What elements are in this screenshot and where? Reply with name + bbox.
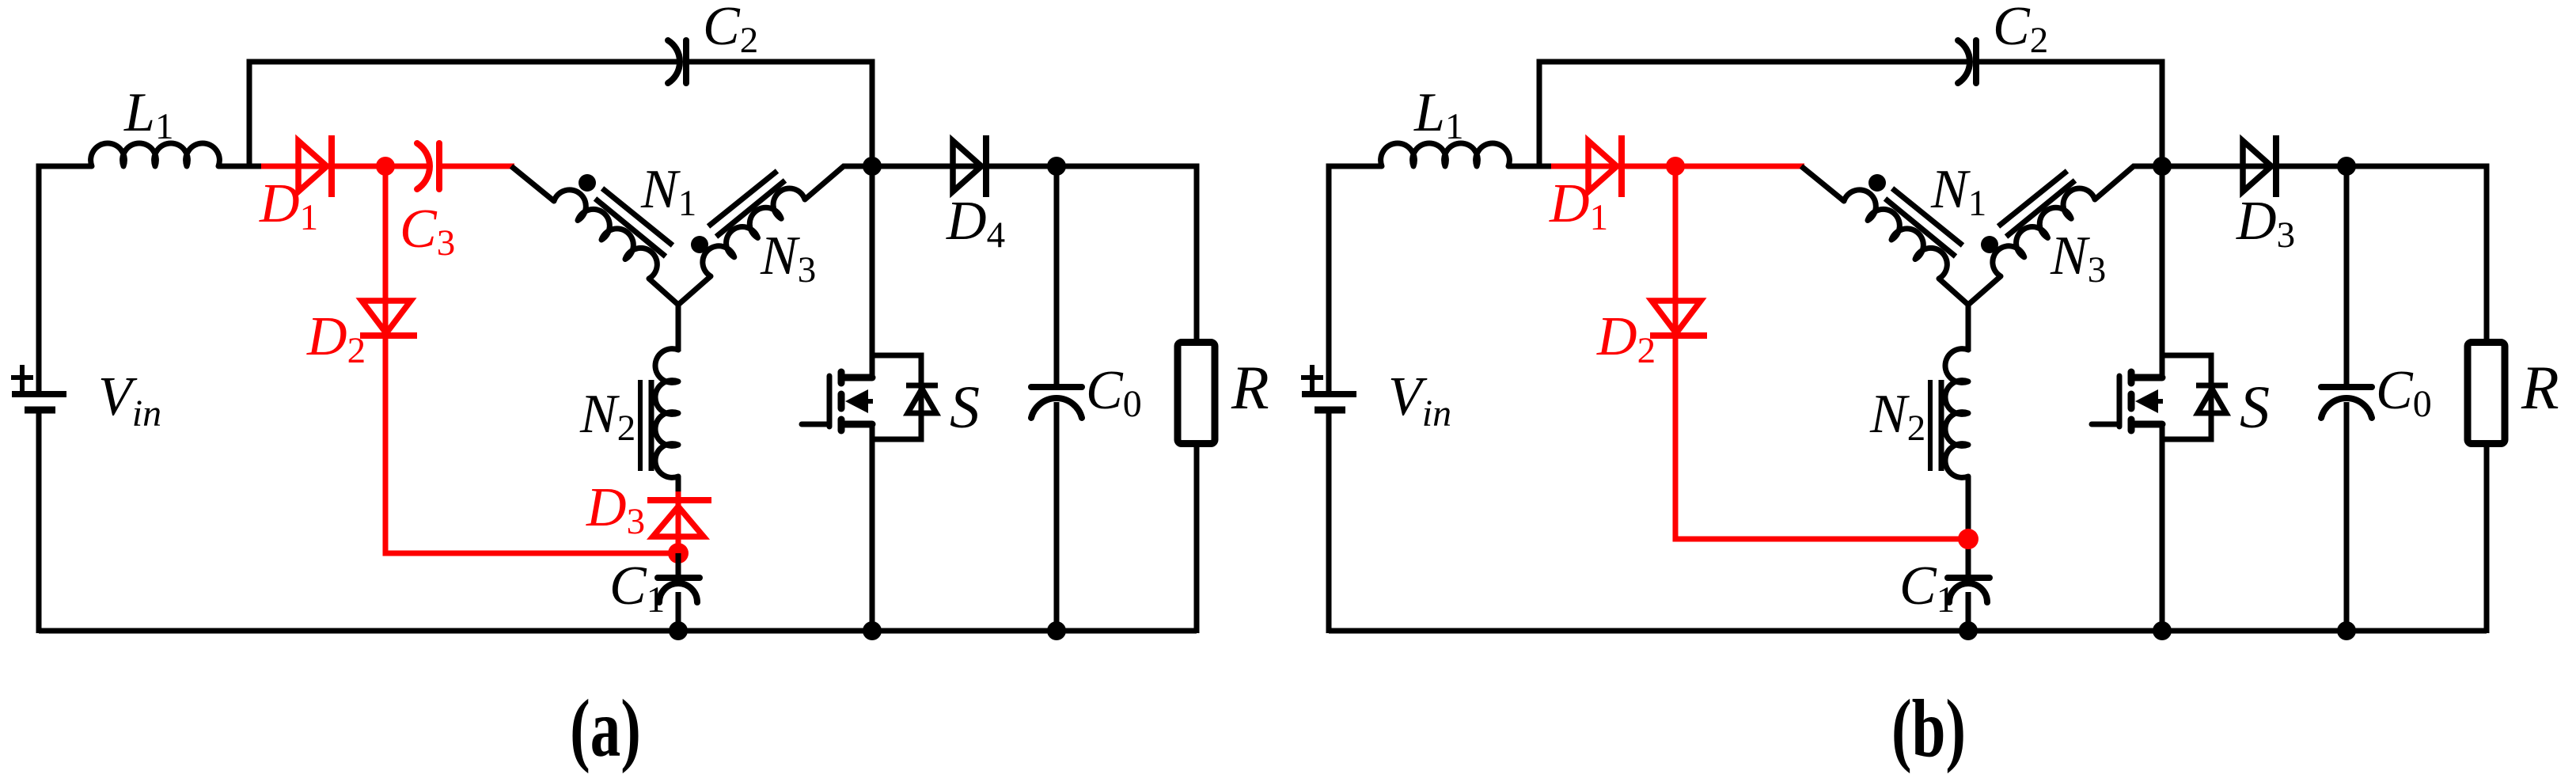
svg-text:S: S [950, 374, 980, 441]
label N1 (a) [640, 159, 696, 224]
wire: D1 to N1 (b) [1622, 164, 1804, 169]
winding N1 phase dot (a) [579, 174, 596, 192]
wire: output node to C0 (a) [1054, 166, 1060, 387]
wire: C1 to bottom bus (a) [676, 592, 681, 633]
capacitor C1 straight plate (a) [658, 575, 700, 581]
bottom bus wire (b) [1329, 628, 2487, 634]
wire: node to D4 (a) [872, 164, 986, 169]
label N1 (b) [1930, 159, 1986, 224]
wire: C2 branch left (a) [249, 62, 678, 166]
capacitor C0 straight plate (a) [1031, 384, 1082, 390]
battery Vin negative plate (b) [1315, 407, 1345, 414]
MOSFET S drain lead (b) [2131, 374, 2162, 381]
wire: node to D2 (b) [1673, 166, 1679, 336]
MOSFET S body-diode loop (b) [2162, 355, 2211, 439]
label D3 (b) [2236, 191, 2295, 256]
winding N2 core bars (a) [640, 380, 651, 471]
label N3 (a) [760, 226, 816, 290]
capacitor C0 straight plate (b) [2321, 384, 2372, 390]
wire: C2 branch left (b) [1539, 62, 1968, 166]
diode D1 cathode bar (a) [328, 135, 335, 197]
label D3 (a) [586, 477, 645, 542]
capacitor C2 straight plate (a) [683, 40, 689, 83]
node dot output (b) [2337, 157, 2356, 176]
diode D4 cathode bar (a) [983, 135, 989, 197]
battery Vin plus sign (a) [11, 365, 33, 391]
wire: C3 to N1 (a) [442, 164, 514, 169]
wire: D1 anode (b) [1551, 164, 1622, 169]
wire: D2 to C1 node red path (a) [385, 336, 678, 553]
wire: MOSFET source to bottom bus (a) [870, 424, 875, 633]
wire: D1 anode (a) [261, 164, 332, 169]
label R (b) [2521, 353, 2559, 422]
capacitor C2 curved plate (b) [1958, 40, 1970, 83]
MOSFET S drain wire (b) [2160, 166, 2165, 378]
wire: L1 to D1 (a) [218, 164, 279, 169]
MOSFET S gate lead (b) [2092, 422, 2119, 427]
MOSFET S drain lead (a) [841, 374, 872, 381]
wire: R to bottom bus (b) [2484, 446, 2490, 633]
node dot D1/D2 junction (b) [1666, 157, 1685, 176]
MOSFET S source lead (a) [841, 421, 872, 428]
label Vin (a) [98, 366, 161, 435]
caption (b) [1891, 682, 1966, 774]
MOSFET S body-diode loop (a) [872, 355, 921, 439]
wire: input rail top-left (b) [1329, 166, 1382, 391]
wire: diagonal to N1 (b) [1801, 166, 1844, 201]
resistor R body (b) [2468, 343, 2505, 444]
label C2 (b) [1993, 0, 2048, 61]
MOSFET S body-diode triangle (b) [2198, 389, 2226, 413]
wire: N3 to node (b) [2095, 166, 2162, 199]
label N3 (b) [2050, 226, 2106, 290]
inductor L1 (a) [91, 143, 220, 166]
winding N1 core bars (b) [1885, 188, 1963, 256]
MOSFET S body-diode triangle (a) [908, 389, 936, 413]
MOSFET S body-diode cathode bar (b) [2196, 383, 2228, 389]
capacitor C0 curved plate (b) [2321, 398, 2372, 418]
wire: through D3 (a) [676, 491, 681, 556]
capacitor C3 curved plate (a) [417, 143, 430, 189]
label C0 (a) [1086, 360, 1142, 425]
caption (a) [570, 682, 641, 774]
wire: D2 to C1 node red path (b) [1675, 336, 1968, 539]
node dot C2/N3/D4/switch junction (a) [863, 157, 882, 176]
node dot C0-bus (b) [2337, 621, 2356, 640]
label D2 (b) [1596, 306, 1656, 371]
wire: R to bottom bus (a) [1194, 446, 1200, 633]
node dot C1-bus (b) [1959, 621, 1978, 640]
label L1 (b) [1413, 82, 1463, 147]
diode D3 cathode bar (a) [647, 497, 711, 503]
winding N3 coil (b) [1993, 188, 2095, 276]
wire: N3 to node (a) [805, 166, 872, 199]
label C2 (a) [703, 0, 758, 61]
label D4 (a) [946, 191, 1005, 256]
wire: D1 to node (a) [332, 164, 389, 169]
battery Vin positive plate (a) [12, 391, 66, 397]
MOSFET S body-diode cathode bar (a) [906, 383, 938, 389]
diode D3 cathode bar (b) [2273, 135, 2279, 197]
MOSFET S channel dashes (b) [2128, 372, 2135, 431]
bottom bus wire (a) [39, 628, 1197, 634]
wire: output node to C0 (b) [2344, 166, 2350, 387]
label S (a) [950, 374, 980, 441]
diode D2 triangle (b) [1652, 301, 1701, 333]
label S (b) [2240, 374, 2270, 441]
node dot output (a) [1047, 157, 1066, 176]
winding N3 phase dot (b) [1981, 236, 1998, 253]
diode D1 triangle (b) [1588, 141, 1617, 192]
wire: output node to R (b) [2346, 166, 2487, 340]
wire: C0 to bottom bus (a) [1054, 402, 1060, 633]
battery Vin positive plate (b) [1302, 391, 1356, 397]
diode D4 triangle (a) [953, 141, 981, 192]
wire: C2 to top-right corner (b) [1979, 62, 2162, 169]
label C0 (b) [2376, 360, 2432, 425]
capacitor C1 straight plate (b) [1948, 575, 1990, 581]
label N2 (a) [579, 384, 635, 449]
wire: L1 to D1 (b) [1508, 164, 1569, 169]
winding N2 core bars (b) [1930, 380, 1941, 471]
wire: battery to bottom bus (b) [1326, 412, 1332, 633]
winding N1 coil (b) [1844, 190, 1947, 279]
winding N1 coil (a) [554, 190, 657, 279]
wire: C2 to top-right corner (a) [689, 62, 872, 169]
node dot switch-bus (a) [863, 621, 882, 640]
diode D3 triangle (a) [653, 507, 704, 537]
capacitor C2 curved plate (a) [668, 40, 680, 83]
node dot C1-bus (a) [669, 621, 688, 640]
node dot D2/D3/C1 junction (a) [668, 543, 689, 564]
wire: D4 to output node (a) [986, 164, 1057, 169]
wire: node to D3 (b) [2162, 164, 2276, 169]
winding N3 phase dot (a) [691, 236, 708, 253]
svg-text:R: R [1231, 353, 1269, 422]
MOSFET S gate bar (a) [827, 376, 833, 427]
label C3 (a) [400, 199, 455, 264]
capacitor C1 curved plate (b) [1949, 583, 1987, 602]
node dot D1/C3/D2 junction (a) [376, 157, 395, 176]
MOSFET S source lead (b) [2131, 421, 2162, 428]
wire: diagonal to N1 (a) [511, 166, 554, 201]
MOSFET S gate bar (b) [2117, 376, 2123, 427]
capacitor C1 curved plate (a) [659, 583, 697, 602]
MOSFET S gate lead (a) [802, 422, 829, 427]
label C1 (b) [1899, 556, 1955, 621]
label D1 (a) [259, 173, 318, 238]
wire: C1 to bottom bus (b) [1966, 592, 1971, 633]
label L1 (a) [123, 82, 173, 147]
label D1 (b) [1549, 173, 1608, 238]
wire: input rail top-left (a) [39, 166, 92, 391]
wire: Y-junction (b) [1939, 276, 2001, 351]
capacitor C2 straight plate (b) [1973, 40, 1979, 83]
wire: C1 top stub (a) [676, 553, 681, 579]
diode D2 triangle (a) [362, 301, 411, 333]
wire: battery to bottom bus (a) [36, 412, 42, 633]
battery Vin plus sign (b) [1301, 365, 1323, 391]
MOSFET S channel dashes (a) [838, 372, 845, 431]
node dot D2/N2/C1 junction (b) [1958, 529, 1978, 549]
wire: C0 to bottom bus (b) [2344, 402, 2350, 633]
node dot C0-bus (a) [1047, 621, 1066, 640]
winding N3 core bars (a) [708, 171, 785, 237]
diode D2 cathode bar (b) [1650, 332, 1707, 339]
capacitor C3 straight plate (a) [436, 143, 442, 189]
winding N1 phase dot (b) [1868, 174, 1886, 192]
node dot C2/N3/D4/switch junction (b) [2153, 157, 2172, 176]
winding N3 core bars (b) [1998, 171, 2075, 237]
diode D2 cathode bar (a) [360, 332, 417, 339]
winding N2 coil (b) [1945, 349, 1968, 478]
battery Vin negative plate (a) [25, 407, 55, 414]
diode D3 triangle (b) [2243, 141, 2271, 192]
winding N3 coil (a) [703, 188, 805, 276]
resistor R body (a) [1178, 343, 1215, 444]
MOSFET S arrow (b) [2135, 389, 2163, 413]
MOSFET S drain wire (a) [870, 166, 875, 378]
label D2 (a) [306, 306, 366, 371]
node dot switch-bus (b) [2153, 621, 2172, 640]
svg-text:(b): (b) [1891, 682, 1966, 774]
diode D1 cathode bar (b) [1618, 135, 1625, 197]
label C1 (a) [609, 556, 665, 621]
svg-text:S: S [2240, 374, 2270, 441]
wire: D3 to output node (b) [2276, 164, 2346, 169]
svg-text:R: R [2521, 353, 2559, 422]
wire: node to C3 (a) [385, 164, 429, 169]
label N2 (b) [1869, 384, 1925, 449]
winding N2 coil (a) [655, 349, 678, 478]
label R (a) [1231, 353, 1269, 422]
wire: N2 to C1 (b) [1966, 476, 1971, 579]
wire: N2 to D3 (a) [676, 476, 681, 495]
wire: MOSFET source to bottom bus (b) [2160, 424, 2165, 633]
wire: output node to R (a) [1057, 166, 1197, 340]
capacitor C0 curved plate (a) [1031, 398, 1082, 418]
wire: Y-junction (a) [649, 276, 711, 351]
winding N1 core bars (a) [595, 188, 673, 256]
MOSFET S arrow (a) [845, 389, 873, 413]
label Vin (b) [1388, 366, 1451, 435]
wire: node to D2 (a) [383, 166, 389, 336]
svg-text:(a): (a) [570, 682, 641, 774]
inductor L1 (b) [1381, 143, 1510, 166]
diode D1 triangle (a) [298, 141, 327, 192]
